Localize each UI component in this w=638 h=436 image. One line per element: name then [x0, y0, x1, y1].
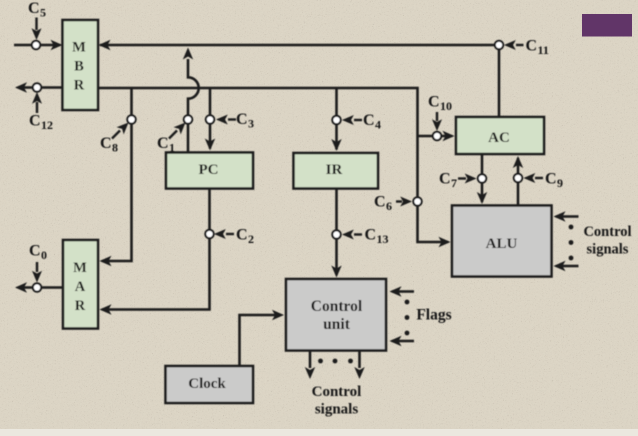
junction C3: [206, 115, 214, 123]
arrowhead: MBR output to left: [15, 82, 27, 92]
wire: bus to PC (C3): [209, 88, 212, 149]
wire: Flags arrow upper: [392, 290, 414, 293]
arrowhead: C13 into Control unit top: [331, 266, 341, 278]
arrow C8 diagonal to junction: [112, 123, 129, 139]
wire: MAR external output: [19, 286, 63, 289]
svg-text:R: R: [74, 78, 85, 94]
svg-text:M: M: [73, 260, 87, 276]
wire: PC to top bus with hop: [188, 59, 199, 153]
svg-text:5: 5: [40, 6, 46, 20]
junction C13: [332, 230, 340, 238]
svg-text:M: M: [72, 40, 86, 56]
label C8: [100, 135, 118, 155]
svg-text:2: 2: [248, 232, 254, 246]
label C4: [363, 112, 381, 132]
arrowhead: control signals lower into ALU: [554, 261, 566, 271]
wire: Control unit output arrow right: [358, 351, 361, 369]
arrowhead: MAR output to left: [15, 282, 27, 292]
svg-text:C: C: [526, 38, 538, 55]
arrowhead: PC up into bus: [183, 48, 193, 60]
junction C9: [514, 174, 522, 182]
label C0: [29, 243, 47, 263]
arrowhead: control signals upper into ALU: [554, 211, 566, 221]
block ALU: [452, 206, 552, 277]
svg-text:Control: Control: [312, 384, 362, 400]
svg-text:6: 6: [386, 199, 392, 213]
arrow C1 diagonal to junction: [169, 123, 186, 139]
junction C6: [413, 197, 421, 205]
arrow C5 down to junction: [32, 18, 42, 41]
svg-text:PC: PC: [199, 162, 219, 178]
svg-text:signals: signals: [587, 242, 629, 258]
label C2: [236, 227, 254, 247]
svg-text:1: 1: [169, 141, 175, 155]
arrow C7 right to junction: [458, 174, 477, 184]
arrowhead: C2 into MAR lower: [100, 304, 112, 314]
junction C10: [433, 132, 441, 140]
register MBR: [63, 20, 99, 110]
junction C11: [495, 41, 503, 49]
svg-text:unit: unit: [323, 316, 351, 333]
arrow C10 down to junction: [432, 112, 442, 131]
label C6: [374, 194, 392, 214]
wire: AC to ALU (C7): [481, 154, 484, 202]
svg-text:12: 12: [41, 118, 53, 132]
svg-text:B: B: [74, 59, 84, 75]
label C3: [236, 111, 254, 131]
arrow C11 left to junction: [504, 40, 524, 50]
wire: MBR external input: [14, 44, 60, 47]
label C10: [428, 94, 452, 114]
svg-text:A: A: [75, 279, 86, 295]
svg-text:C: C: [374, 194, 386, 211]
block Control unit: [286, 279, 386, 351]
wire: bus to IR (C4): [335, 88, 338, 150]
svg-text:9: 9: [557, 176, 563, 190]
wire: ALU control signals arrow upper: [556, 215, 579, 218]
svg-text:C: C: [236, 227, 248, 244]
svg-text:Control: Control: [311, 298, 363, 315]
wire: MBR external output: [19, 86, 63, 89]
block Clock: [166, 366, 254, 403]
svg-text:C: C: [29, 113, 41, 130]
arrow C12 up to junction: [32, 92, 42, 113]
label C12: [29, 113, 53, 133]
svg-text:C: C: [545, 171, 557, 188]
svg-text:13: 13: [377, 232, 389, 246]
svg-text:C: C: [236, 111, 248, 128]
label C1: [157, 135, 175, 155]
svg-text:C: C: [365, 227, 377, 244]
junction C8: [127, 115, 135, 123]
arrowhead: into MBR left: [51, 40, 63, 50]
arrow C2 left to junction: [214, 229, 234, 239]
svg-text:AC: AC: [488, 130, 510, 146]
arrow C6 right to junction: [396, 197, 412, 207]
svg-text:11: 11: [538, 43, 549, 57]
junction C0: [33, 283, 41, 291]
wire: top bus (AC/PC to MBR input): [100, 44, 499, 47]
arrowhead: AC down into ALU top: [477, 192, 487, 204]
wire: PC to MAR lower (C2): [102, 189, 210, 310]
label C7: [439, 171, 457, 191]
svg-text:8: 8: [112, 141, 118, 155]
dots: Flags: [405, 300, 410, 336]
arrow C4 left to junction: [342, 115, 362, 125]
junction C2: [205, 230, 213, 238]
arrowhead: Flags upper into Control unit: [390, 286, 402, 296]
register AC: [456, 117, 544, 154]
arrowhead: C3 into PC top: [205, 139, 215, 151]
bottom strip: [0, 429, 638, 436]
arrow C3 left to junction: [216, 115, 236, 125]
arrow C0 down to junction: [32, 262, 42, 283]
svg-text:C: C: [439, 171, 451, 188]
arrowhead: C8 into MAR upper: [100, 256, 112, 266]
svg-text:C: C: [157, 135, 169, 152]
wire: Control unit output arrow left: [309, 351, 312, 369]
label C9: [545, 171, 563, 191]
svg-text:C: C: [100, 135, 112, 152]
label C5: [28, 0, 46, 20]
wire: IR to Control unit (C13): [335, 189, 338, 276]
arrowhead: ALU up into AC bottom: [513, 156, 523, 168]
arrowhead: top bus into MBR right: [99, 40, 111, 50]
svg-text:C: C: [28, 0, 40, 17]
wire: ALU control signals arrow lower: [556, 265, 579, 268]
dots: ALU control signals: [569, 225, 574, 261]
arrowhead: C6 line into ALU left: [439, 237, 451, 247]
arrowhead: C4 into IR top: [331, 139, 341, 151]
junction C7: [478, 174, 486, 182]
wire: C10 branch into AC: [418, 135, 453, 138]
svg-text:Control: Control: [583, 224, 631, 240]
register IR: [294, 153, 379, 189]
junction C4: [332, 116, 340, 124]
arrowhead: Flags lower into Control unit: [390, 336, 402, 346]
small gate-label arrows: [32, 18, 544, 283]
wire: Flags arrow lower: [392, 340, 414, 343]
svg-text:3: 3: [248, 117, 254, 131]
junction C5: [32, 41, 40, 49]
junction circles: [32, 41, 522, 292]
arrowhead: Control unit output right: [354, 367, 364, 379]
register PC: [166, 153, 253, 189]
arrow C9 left to junction: [524, 173, 544, 183]
svg-text:R: R: [75, 298, 86, 314]
svg-text:7: 7: [451, 176, 457, 190]
wire: Clock to Control unit: [240, 315, 281, 366]
logo rectangle (purple): [582, 14, 632, 37]
junction C12: [33, 83, 41, 91]
register MAR: [63, 240, 98, 329]
svg-text:Flags: Flags: [416, 307, 451, 324]
svg-text:C: C: [29, 243, 41, 260]
arrowhead: C10 into AC left: [443, 131, 455, 141]
junction C1: [184, 115, 192, 123]
svg-text:10: 10: [440, 99, 452, 113]
svg-text:signals: signals: [315, 402, 359, 418]
arrowhead: Clock into Control unit left: [272, 310, 284, 320]
wire: ALU to AC (C9): [517, 158, 520, 206]
wire: bus to MAR upper (C8): [102, 88, 132, 261]
svg-text:ALU: ALU: [486, 236, 518, 252]
arrow C13 left to junction: [342, 230, 362, 240]
svg-text:Clock: Clock: [188, 376, 226, 392]
wire: AC riser to top bus: [498, 45, 501, 117]
dots: Control unit outputs: [318, 359, 353, 364]
wire: MBR output bus: [98, 88, 448, 242]
svg-text:4: 4: [375, 118, 381, 132]
svg-text:C: C: [428, 94, 440, 111]
label C13: [365, 227, 389, 247]
arrowhead: Control unit output left: [305, 367, 315, 379]
label C11: [526, 38, 549, 58]
svg-text:IR: IR: [326, 162, 343, 178]
svg-text:0: 0: [41, 248, 47, 262]
control-gate labels C0..C13 with subscripts: [28, 0, 563, 262]
svg-text:C: C: [363, 112, 375, 129]
